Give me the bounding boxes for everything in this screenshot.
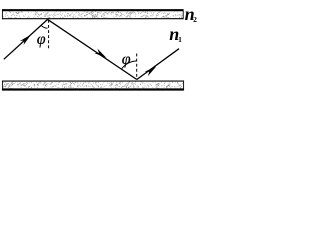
svg-text:1: 1 — [178, 35, 182, 44]
arrowhead on ray segment 3 — [145, 67, 157, 77]
ray segment 3: reflected ray from bottom reflection point to upper right — [137, 49, 179, 80]
svg-text:φ: φ — [37, 31, 46, 48]
arrowhead on ray segment 2 — [94, 49, 106, 58]
bottom cladding strip: thick outer bottom edge — [2, 88, 184, 90]
dashed normal at bottom reflection point — [136, 54, 138, 80]
bottom cladding strip: right end cap — [183, 81, 185, 91]
arrowhead on ray segment 1 — [20, 35, 31, 45]
angle arc phi at bottom reflection — [121, 61, 136, 69]
top cladding strip: thick outer top edge — [2, 9, 184, 11]
bottom cladding strip: stippled fill — [3, 81, 183, 89]
svg-text:2: 2 — [193, 15, 197, 24]
ray segment 1: incident ray from lower-left up to top reflection point — [4, 19, 48, 59]
top cladding strip: right end cap — [182, 9, 184, 19]
top cladding strip: left end cap — [1, 9, 3, 19]
dashed normal at top reflection point — [48, 20, 50, 51]
angle arc phi at top reflection — [41, 25, 48, 28]
bottom cladding strip: thin inner top edge — [2, 80, 184, 82]
top cladding strip (n2 medium): stippled fill — [3, 10, 182, 18]
ray segment 2: from top reflection point down to bottom reflection point — [48, 19, 137, 79]
bottom cladding strip: left end cap — [1, 81, 3, 91]
svg-text:φ: φ — [122, 51, 131, 68]
top cladding strip: thin inner bottom edge — [2, 18, 184, 20]
